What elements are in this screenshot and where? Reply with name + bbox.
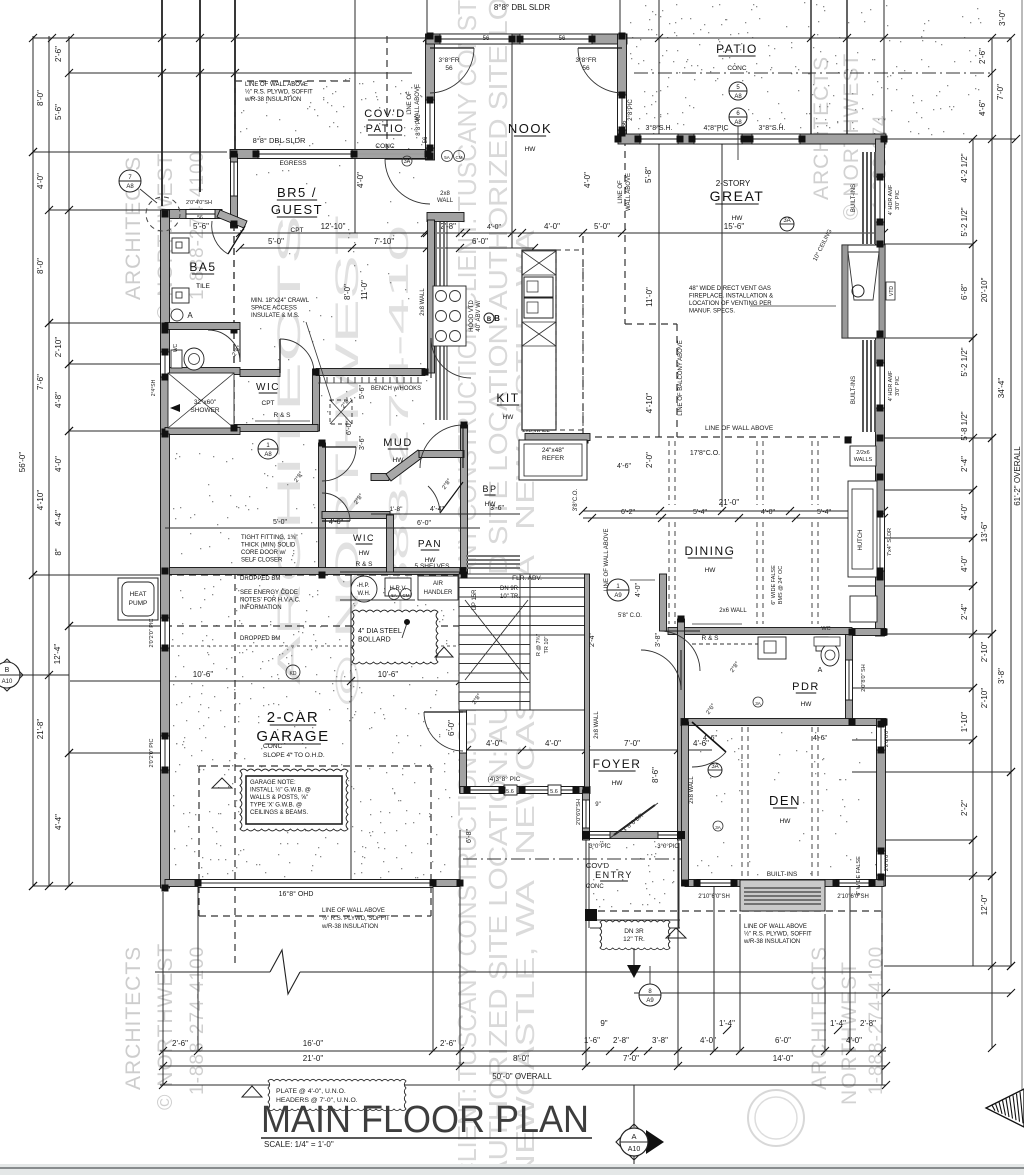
- svg-text:2'0"2'0" PIC: 2'0"2'0" PIC: [149, 619, 155, 648]
- svg-text:8°8°PIC: 8°8°PIC: [416, 114, 422, 136]
- svg-text:1'-6": 1'-6": [584, 1036, 600, 1045]
- svg-text:HW: HW: [732, 215, 744, 222]
- svg-text:HW: HW: [503, 414, 515, 421]
- svg-text:10'-6": 10'-6": [378, 670, 399, 679]
- svg-text:3A: 3A: [715, 825, 721, 830]
- svg-text:HUTCH: HUTCH: [858, 530, 864, 551]
- svg-text:BUILT-INS: BUILT-INS: [851, 376, 857, 404]
- svg-text:4'-6": 4'-6": [978, 100, 987, 116]
- svg-text:B: B: [487, 317, 492, 323]
- svg-text:COV'D: COV'D: [364, 108, 405, 120]
- svg-text:2'-8": 2'-8": [860, 1019, 876, 1028]
- svg-text:WIC: WIC: [256, 382, 280, 393]
- svg-text:5'-8": 5'-8": [644, 167, 653, 183]
- svg-text:6'-8": 6'-8": [466, 829, 473, 843]
- svg-text:CORE DOOR w/: CORE DOOR w/: [241, 550, 286, 556]
- svg-text:6" WIDE FALSE: 6" WIDE FALSE: [856, 856, 862, 896]
- svg-text:2'0"6'0"SH: 2'0"6'0"SH: [576, 799, 582, 825]
- svg-text:A: A: [187, 311, 193, 320]
- svg-text:5'-6": 5'-6": [193, 222, 209, 231]
- svg-text:21'-8": 21'-8": [36, 719, 45, 740]
- svg-text:2'-10": 2'-10": [980, 688, 989, 709]
- svg-text:2x8 WALL: 2x8 WALL: [689, 776, 695, 804]
- svg-text:PLATE @ 4'-0", U.N.O.: PLATE @ 4'-0", U.N.O.: [276, 1088, 346, 1095]
- svg-text:R & S: R & S: [274, 412, 292, 419]
- svg-text:8'-6": 8'-6": [651, 767, 660, 783]
- svg-text:3'-8": 3'-8": [655, 633, 662, 647]
- svg-text:5A: 5A: [391, 593, 397, 598]
- svg-text:AUTHORIZED SITE LOCATION:: AUTHORIZED SITE LOCATION:: [483, 0, 513, 310]
- svg-text:AIR: AIR: [433, 581, 444, 587]
- svg-text:12'-10": 12'-10": [321, 222, 346, 231]
- svg-text:4'-0": 4'-0": [846, 1036, 862, 1045]
- svg-text:ARCHITECTS: ARCHITECTS: [808, 946, 831, 1090]
- svg-text:A8: A8: [734, 120, 742, 126]
- svg-text:7'-0": 7'-0": [996, 84, 1005, 100]
- svg-text:THICK (MIN) SOLID: THICK (MIN) SOLID: [241, 543, 296, 549]
- svg-text:2'-4": 2'-4": [960, 456, 969, 472]
- svg-text:w/R-38 INSULATION: w/R-38 INSULATION: [321, 924, 378, 930]
- svg-text:2-STORY: 2-STORY: [716, 179, 751, 188]
- svg-text:10'-6": 10'-6": [193, 670, 214, 679]
- svg-text:3A: 3A: [711, 764, 718, 770]
- svg-text:4°8°PIC: 4°8°PIC: [703, 124, 728, 132]
- svg-text:CPT: CPT: [291, 227, 304, 234]
- svg-text:LINE OF BALCONY ABOVE: LINE OF BALCONY ABOVE: [678, 340, 684, 416]
- svg-text:SPACE ACCESS: SPACE ACCESS: [251, 306, 297, 312]
- svg-text:17'8°C.O.: 17'8°C.O.: [690, 449, 720, 457]
- svg-text:2x6 WALL: 2x6 WALL: [719, 608, 747, 614]
- svg-text:SHOWER: SHOWER: [190, 407, 220, 414]
- svg-text:FOYER: FOYER: [593, 757, 642, 771]
- svg-text:R & S: R & S: [702, 635, 720, 642]
- svg-text:4'-4": 4'-4": [430, 506, 444, 513]
- svg-text:LINE OF WALL ABOVE: LINE OF WALL ABOVE: [322, 908, 385, 914]
- svg-text:MANUF. SPECS.: MANUF. SPECS.: [689, 309, 735, 315]
- svg-text:4'-6": 4'-6": [329, 519, 343, 526]
- svg-text:2'0"2'0" PIC: 2'0"2'0" PIC: [149, 739, 155, 768]
- svg-text:½" R.S. PLYWD, SOFFIT: ½" R.S. PLYWD, SOFFIT: [245, 89, 313, 96]
- svg-text:DN 9R: DN 9R: [500, 586, 519, 592]
- svg-text:KD: KD: [290, 671, 297, 677]
- svg-text:HANDLER: HANDLER: [424, 590, 453, 596]
- svg-text:6'-0": 6'-0": [447, 720, 456, 736]
- svg-text:MUD: MUD: [383, 437, 413, 449]
- svg-text:2'-0": 2'-0": [645, 452, 654, 468]
- svg-text:48" WIDE DIRECT VENT GAS: 48" WIDE DIRECT VENT GAS: [689, 286, 771, 292]
- svg-text:2'-2": 2'-2": [960, 800, 969, 816]
- svg-text:5'-8 1/2": 5'-8 1/2": [960, 411, 969, 440]
- svg-text:5'-4": 5'-4": [817, 509, 831, 516]
- svg-text:56: 56: [197, 215, 203, 221]
- svg-text:HW: HW: [525, 146, 537, 153]
- svg-text:3A: 3A: [404, 159, 411, 165]
- svg-text:H.P.: H.P.: [359, 583, 370, 589]
- svg-text:SLOPE 4" TO O.H.D.: SLOPE 4" TO O.H.D.: [263, 752, 325, 759]
- svg-text:HW: HW: [801, 701, 813, 708]
- svg-text:MAIN FLOOR PLAN: MAIN FLOOR PLAN: [261, 1099, 589, 1141]
- svg-text:WIC: WIC: [353, 533, 375, 543]
- svg-text:A8: A8: [264, 452, 272, 458]
- svg-text:4'-0": 4'-0": [486, 739, 502, 748]
- svg-text:A: A: [631, 1132, 636, 1141]
- svg-text:WALL: WALL: [437, 198, 454, 204]
- svg-text:12" TR.: 12" TR.: [623, 936, 645, 943]
- svg-text:2'-4": 2'-4": [960, 604, 969, 620]
- svg-text:PATIO: PATIO: [366, 123, 405, 135]
- svg-text:TYPE 'X' G.W.B. @: TYPE 'X' G.W.B. @: [250, 803, 302, 809]
- svg-text:LINE OF: LINE OF: [407, 91, 413, 115]
- svg-text:8°8° DBL SLDR: 8°8° DBL SLDR: [253, 136, 306, 145]
- svg-text:CM: CM: [403, 593, 410, 598]
- svg-text:CPT: CPT: [262, 400, 275, 407]
- svg-text:A9: A9: [614, 593, 622, 599]
- svg-text:6'-0": 6'-0": [472, 237, 488, 246]
- svg-text:5'-4": 5'-4": [693, 509, 707, 516]
- svg-text:A10: A10: [628, 1146, 641, 1153]
- svg-text:50'-0" OVERALL: 50'-0" OVERALL: [492, 1072, 552, 1081]
- svg-text:3'8°C.O.: 3'8°C.O.: [573, 488, 579, 511]
- svg-text:FLR. ABV.: FLR. ABV.: [512, 575, 542, 582]
- svg-text:PATIO: PATIO: [716, 42, 758, 56]
- svg-text:LINE OF WALL ABOVE: LINE OF WALL ABOVE: [245, 82, 308, 88]
- svg-text:KIT: KIT: [496, 391, 519, 405]
- svg-text:2'-6": 2'-6": [172, 1039, 188, 1048]
- svg-text:SEE ENERGY CODE: SEE ENERGY CODE: [240, 590, 298, 596]
- svg-text:3'-8": 3'-8": [997, 668, 1006, 684]
- svg-text:3°0°PIC: 3°0°PIC: [589, 844, 611, 850]
- svg-text:3'0" PIC: 3'0" PIC: [895, 190, 901, 210]
- svg-text:56: 56: [423, 136, 429, 143]
- svg-text:A8: A8: [734, 94, 742, 100]
- svg-text:13'-6": 13'-6": [980, 522, 989, 543]
- svg-text:24"x48": 24"x48": [542, 447, 565, 454]
- svg-text:DROPPED BM: DROPPED BM: [240, 576, 280, 582]
- svg-text:NOTES' FOR H.V.A.C.: NOTES' FOR H.V.A.C.: [240, 598, 301, 604]
- svg-text:LOCATION OF VENTING PER: LOCATION OF VENTING PER: [689, 301, 772, 307]
- svg-text:WALLS: WALLS: [854, 457, 873, 463]
- svg-text:CONC: CONC: [263, 743, 282, 750]
- svg-text:40" ABV W/: 40" ABV W/: [476, 300, 482, 331]
- svg-text:56: 56: [559, 36, 566, 42]
- svg-text:UP 15R: UP 15R: [472, 589, 478, 611]
- svg-text:5A: 5A: [444, 155, 450, 160]
- svg-text:BP: BP: [482, 484, 497, 494]
- svg-text:DROPPED BM: DROPPED BM: [240, 636, 280, 642]
- svg-text:3°8°S.H.: 3°8°S.H.: [759, 124, 786, 132]
- svg-text:2x8: 2x8: [440, 191, 450, 197]
- svg-text:HW: HW: [612, 780, 624, 787]
- svg-text:BUILT-INS: BUILT-INS: [767, 871, 798, 878]
- svg-text:PUMP: PUMP: [129, 600, 148, 607]
- svg-text:SELF CLOSER: SELF CLOSER: [241, 558, 283, 564]
- svg-text:w/R-38 INSULATION: w/R-38 INSULATION: [743, 939, 800, 945]
- svg-text:CM: CM: [456, 155, 463, 160]
- svg-text:56: 56: [445, 65, 453, 72]
- svg-text:WALLS & POSTS, ⅝": WALLS & POSTS, ⅝": [250, 795, 308, 801]
- svg-text:INSTALL ½" G.W.B. @: INSTALL ½" G.W.B. @: [250, 787, 311, 794]
- svg-text:4'-0": 4'-0": [635, 583, 642, 597]
- svg-text:CONC: CONC: [586, 884, 604, 890]
- svg-text:6'-2": 6'-2": [621, 509, 635, 516]
- svg-text:3'-6": 3'-6": [359, 436, 366, 450]
- svg-text:8°8° DBL SLDR: 8°8° DBL SLDR: [494, 3, 551, 12]
- svg-text:3°8°S.H.: 3°8°S.H.: [646, 124, 673, 132]
- svg-text:GREAT: GREAT: [710, 188, 765, 204]
- svg-text:4'-10": 4'-10": [645, 393, 654, 414]
- svg-text:DN 3R: DN 3R: [624, 928, 644, 935]
- svg-text:8'-0": 8'-0": [513, 1054, 529, 1063]
- svg-text:W.H.: W.H.: [358, 591, 371, 597]
- svg-text:B: B: [5, 667, 10, 674]
- svg-text:8'-0": 8'-0": [36, 258, 45, 274]
- svg-text:11'-0": 11'-0": [645, 287, 654, 307]
- svg-text:9": 9": [595, 802, 600, 808]
- svg-text:2'10"6'0"SH: 2'10"6'0"SH: [698, 894, 730, 900]
- svg-text:FIREPLACE. INSTALLATION &: FIREPLACE. INSTALLATION &: [689, 294, 773, 300]
- svg-text:PAN: PAN: [418, 539, 442, 550]
- svg-text:4'-6": 4'-6": [703, 735, 717, 742]
- svg-text:56: 56: [622, 120, 628, 127]
- svg-text:HW: HW: [780, 818, 792, 825]
- svg-text:R & S: R & S: [356, 561, 374, 568]
- svg-text:INSULATE & M.S.: INSULATE & M.S.: [251, 313, 300, 319]
- svg-text:15'-6": 15'-6": [724, 222, 745, 231]
- svg-text:3A: 3A: [755, 701, 761, 706]
- svg-text:R @ 7¾": R @ 7¾": [536, 634, 542, 656]
- svg-text:5'-0": 5'-0": [594, 222, 610, 231]
- svg-text:2'-6": 2'-6": [978, 48, 987, 64]
- svg-text:6'-0": 6'-0": [417, 520, 431, 527]
- svg-text:NOOK: NOOK: [508, 121, 552, 136]
- svg-text:B: B: [494, 314, 500, 323]
- svg-text:CONC: CONC: [375, 143, 394, 150]
- svg-text:9": 9": [600, 1019, 607, 1028]
- svg-text:16°8° OHD: 16°8° OHD: [279, 890, 314, 898]
- svg-text:DEN: DEN: [769, 793, 801, 808]
- svg-text:w/R-38 INSULATION: w/R-38 INSULATION: [244, 97, 301, 103]
- svg-text:4'-0": 4'-0": [544, 222, 560, 231]
- svg-text:2'-8": 2'-8": [440, 222, 456, 231]
- svg-text:5.6: 5.6: [550, 789, 558, 795]
- svg-text:LINE OF WALL ABOVE: LINE OF WALL ABOVE: [744, 924, 807, 930]
- svg-text:3°0°PIC: 3°0°PIC: [657, 844, 679, 850]
- svg-text:BENCH w/HOOKS: BENCH w/HOOKS: [371, 386, 421, 392]
- svg-text:A: A: [818, 667, 823, 674]
- svg-text:4'-6": 4'-6": [617, 463, 631, 470]
- svg-text:14'-0": 14'-0": [773, 1054, 794, 1063]
- svg-text:8": 8": [54, 548, 63, 555]
- svg-text:WALL ABOVE: WALL ABOVE: [626, 173, 632, 211]
- svg-text:4'-4": 4'-4": [54, 814, 63, 830]
- svg-text:4' HDR AMF: 4' HDR AMF: [888, 370, 894, 401]
- svg-text:A8: A8: [126, 184, 134, 190]
- svg-text:3°8°FR: 3°8°FR: [575, 56, 596, 64]
- svg-text:HOOD VTD: HOOD VTD: [469, 300, 475, 332]
- svg-text:56'-0": 56'-0": [18, 452, 27, 473]
- svg-text:11'-0": 11'-0": [360, 280, 369, 300]
- svg-text:6'-0": 6'-0": [775, 1036, 791, 1045]
- svg-text:2'0"4'0"SH: 2'0"4'0"SH: [186, 200, 212, 206]
- svg-text:HW: HW: [393, 457, 405, 464]
- svg-text:INFORMATION: INFORMATION: [240, 605, 282, 611]
- svg-text:4" DIA STEEL: 4" DIA STEEL: [358, 628, 402, 635]
- svg-text:4'-0": 4'-0": [54, 456, 63, 472]
- svg-text:34'-4": 34'-4": [997, 378, 1006, 399]
- svg-text:1'-8": 1'-8": [390, 506, 404, 513]
- svg-text:4'-0": 4'-0": [545, 739, 561, 748]
- svg-text:2'-8": 2'-8": [613, 1036, 629, 1045]
- svg-text:5'-2 1/2": 5'-2 1/2": [960, 347, 969, 376]
- svg-text:EGRESS: EGRESS: [279, 160, 307, 167]
- svg-text:5'-0": 5'-0": [268, 237, 284, 246]
- svg-text:4' HDR AMF: 4' HDR AMF: [888, 184, 894, 215]
- svg-text:CONC: CONC: [727, 65, 746, 72]
- svg-text:5'-6": 5'-6": [359, 385, 366, 399]
- svg-text:2°4°SH: 2°4°SH: [151, 379, 157, 396]
- svg-text:4'-0": 4'-0": [960, 504, 969, 520]
- svg-text:2'-10": 2'-10": [980, 642, 989, 663]
- svg-text:BOLLARD: BOLLARD: [358, 637, 391, 644]
- svg-text:2'6"8'0": 2'6"8'0": [884, 729, 890, 747]
- svg-text:4'-0": 4'-0": [960, 556, 969, 572]
- svg-text:1'-10": 1'-10": [960, 712, 969, 733]
- svg-text:A10: A10: [2, 679, 13, 685]
- svg-text:4'-4": 4'-4": [54, 510, 63, 526]
- svg-text:ENTRY: ENTRY: [595, 870, 633, 880]
- svg-text:4'-10": 4'-10": [36, 490, 45, 511]
- svg-text:1'-4": 1'-4": [719, 1019, 735, 1028]
- svg-text:8'-0": 8'-0": [343, 284, 352, 300]
- svg-text:12'-0": 12'-0": [980, 895, 989, 916]
- svg-text:4'-0": 4'-0": [487, 224, 501, 231]
- svg-text:GARAGE NOTE:: GARAGE NOTE:: [250, 780, 296, 786]
- svg-text:56: 56: [582, 65, 590, 72]
- svg-text:HEAT: HEAT: [130, 591, 147, 598]
- svg-text:2'0"8'0" SH: 2'0"8'0" SH: [861, 664, 867, 691]
- svg-text:2/2x6: 2/2x6: [856, 450, 869, 456]
- svg-text:2'-6": 2'-6": [54, 46, 63, 62]
- svg-text:4'-2 1/2": 4'-2 1/2": [960, 153, 969, 182]
- svg-text:2°8°PIC: 2°8°PIC: [628, 99, 634, 121]
- svg-text:10" TR.: 10" TR.: [500, 594, 520, 600]
- svg-text:BA5: BA5: [189, 260, 216, 274]
- svg-text:20'-10": 20'-10": [980, 277, 989, 302]
- svg-text:16'-0": 16'-0": [303, 1039, 324, 1048]
- svg-text:LINE OF: LINE OF: [618, 180, 624, 204]
- svg-text:5.6: 5.6: [506, 789, 514, 795]
- svg-text:2'6"8'0": 2'6"8'0": [884, 853, 890, 871]
- svg-text:4'-0": 4'-0": [583, 172, 592, 188]
- svg-text:MIN. 18"x24" CRAWL: MIN. 18"x24" CRAWL: [251, 298, 310, 304]
- svg-text:5'8" C.O.: 5'8" C.O.: [618, 613, 642, 619]
- svg-text:7'-6": 7'-6": [36, 374, 45, 390]
- svg-text:PDR: PDR: [792, 681, 820, 693]
- svg-text:2'-10": 2'-10": [54, 337, 63, 358]
- svg-text:TIGHT FITTING, 1⅜": TIGHT FITTING, 1⅜": [241, 535, 298, 541]
- svg-text:TILE: TILE: [196, 283, 210, 290]
- svg-text:(4)3°8° PIC: (4)3°8° PIC: [487, 775, 520, 783]
- svg-text:½" R.S. PLYWD, SOFFIT: ½" R.S. PLYWD, SOFFIT: [322, 915, 390, 922]
- svg-text:32"x60": 32"x60": [194, 399, 217, 406]
- svg-text:5 SHELVES: 5 SHELVES: [415, 563, 451, 570]
- svg-text:HW: HW: [705, 567, 717, 574]
- svg-text:4'-0": 4'-0": [700, 1036, 716, 1045]
- svg-text:56: 56: [483, 36, 490, 42]
- svg-text:4'-6": 4'-6": [813, 735, 827, 742]
- svg-text:1'-4": 1'-4": [830, 1019, 846, 1028]
- svg-text:7'-0": 7'-0": [623, 1054, 639, 1063]
- svg-text:4'-0": 4'-0": [36, 173, 45, 189]
- svg-text:2x8 WALL: 2x8 WALL: [594, 711, 600, 739]
- svg-text:HW: HW: [359, 550, 371, 557]
- svg-text:LINE OF WALL ABOVE: LINE OF WALL ABOVE: [705, 425, 774, 432]
- svg-text:2-CAR: 2-CAR: [267, 709, 320, 726]
- svg-text:3'-8": 3'-8": [652, 1036, 668, 1045]
- svg-text:7'x4" SLDR: 7'x4" SLDR: [887, 528, 893, 556]
- svg-text:BMS @ 24" OC: BMS @ 24" OC: [778, 566, 784, 604]
- svg-text:SCALE: 1/4" = 1'-0": SCALE: 1/4" = 1'-0": [264, 1140, 334, 1149]
- svg-text:LINE OF WALL ABOVE: LINE OF WALL ABOVE: [604, 529, 610, 592]
- svg-text:TR 10": TR 10": [544, 636, 550, 653]
- svg-text:6" WIDE FALSE: 6" WIDE FALSE: [771, 565, 777, 605]
- svg-text:6'-8": 6'-8": [960, 284, 969, 300]
- svg-text:3°8°FR: 3°8°FR: [438, 56, 459, 64]
- svg-text:CEILINGS & BEAMS.: CEILINGS & BEAMS.: [250, 810, 308, 816]
- svg-text:8'-0": 8'-0": [36, 90, 45, 106]
- svg-text:3'0" PIC: 3'0" PIC: [895, 376, 901, 396]
- svg-text:2'-6": 2'-6": [440, 1039, 456, 1048]
- svg-text:21'-0": 21'-0": [719, 498, 740, 507]
- svg-text:4'-8": 4'-8": [54, 392, 63, 408]
- svg-text:VTD: VTD: [889, 286, 895, 296]
- svg-text:A9: A9: [646, 998, 654, 1004]
- svg-text:3'-6": 3'-6": [490, 505, 504, 512]
- svg-text:5'-6": 5'-6": [54, 104, 63, 120]
- svg-text:4'-0": 4'-0": [356, 172, 365, 188]
- svg-text:GUEST: GUEST: [271, 202, 323, 217]
- svg-text:WC: WC: [173, 343, 179, 352]
- svg-text:BUILT-INS: BUILT-INS: [851, 184, 857, 212]
- svg-text:2'10"6'0"SH: 2'10"6'0"SH: [837, 894, 869, 900]
- svg-text:3'-0": 3'-0": [998, 10, 1007, 26]
- svg-text:ARCHITECTS: ARCHITECTS: [122, 946, 145, 1090]
- svg-text:3A: 3A: [783, 218, 790, 224]
- svg-text:2x8 WALL: 2x8 WALL: [420, 288, 426, 316]
- svg-text:BR5 /: BR5 /: [277, 185, 317, 200]
- svg-text:½" R.S. PLYWD, SOFFIT: ½" R.S. PLYWD, SOFFIT: [744, 931, 812, 938]
- svg-text:DINING: DINING: [685, 544, 736, 558]
- svg-text:4'-0": 4'-0": [761, 509, 775, 516]
- svg-text:2'-4": 2'-4": [589, 633, 596, 647]
- svg-text:5'-0": 5'-0": [273, 519, 287, 526]
- svg-text:21'-0": 21'-0": [303, 1054, 324, 1063]
- svg-text:5'-2 1/2": 5'-2 1/2": [960, 207, 969, 236]
- svg-text:REFER: REFER: [542, 455, 564, 462]
- svg-text:WC: WC: [821, 626, 830, 632]
- svg-text:12'-4": 12'-4": [53, 644, 62, 665]
- svg-text:7'-0": 7'-0": [624, 739, 640, 748]
- svg-text:COV'D: COV'D: [586, 861, 610, 870]
- svg-text:61'-2" OVERALL: 61'-2" OVERALL: [1013, 446, 1022, 506]
- svg-text:7'-10": 7'-10": [374, 237, 395, 246]
